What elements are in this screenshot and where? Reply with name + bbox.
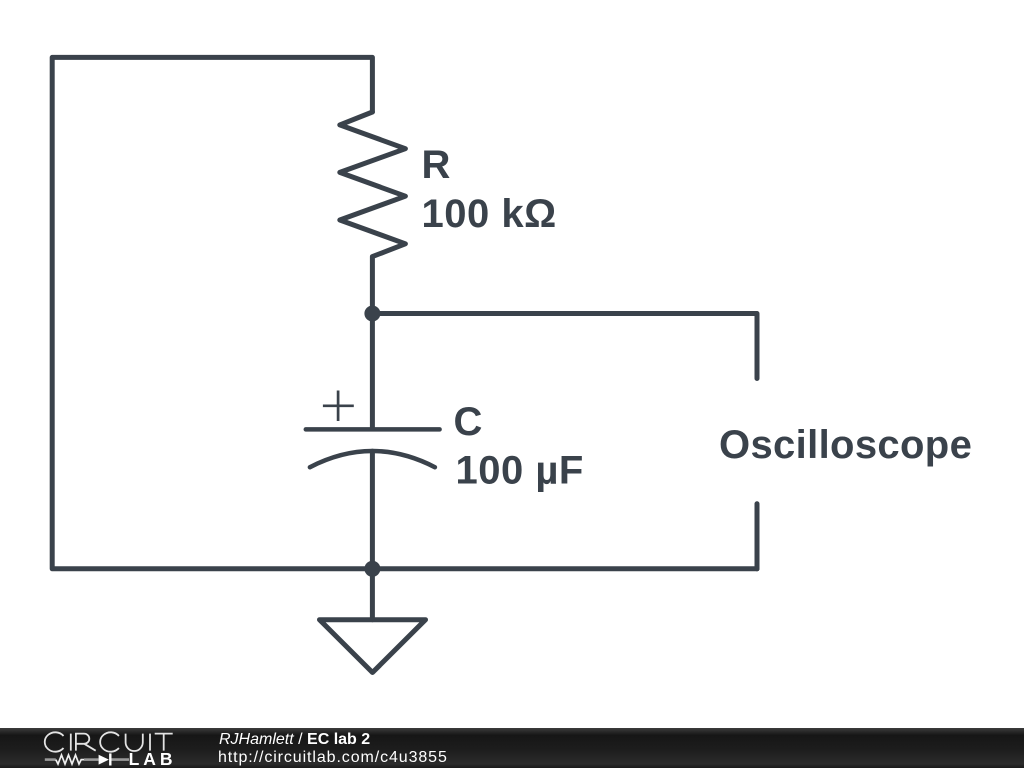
wire node A to oscilloscope top stub [372,314,757,379]
capacitor plus polarity mark [323,391,354,422]
svg-text:LAB: LAB [129,749,177,768]
node A junction dot [364,306,380,322]
wire node B to ground [370,569,375,620]
wire capacitor to node B [370,451,375,569]
ground symbol [320,620,426,673]
wire top/left/bottom loop [52,57,757,568]
svg-text:R: R [422,143,451,187]
logo CIRCUIT wordmark [45,732,173,751]
wire node A down to capacitor [370,314,375,430]
footer url line [218,749,448,767]
footer title line [219,731,370,749]
svg-text:100 kΩ: 100 kΩ [422,192,557,236]
capacitor C top plate [306,427,440,432]
svg-text:Oscilloscope: Oscilloscope [719,423,972,467]
capacitor C bottom arc plate [310,451,435,467]
footer bar [0,728,1024,768]
wire oscilloscope bottom stub [755,504,760,569]
svg-text:100 µF: 100 µF [456,449,584,493]
resistor R zigzag with lead to node A [340,112,406,314]
svg-text:C: C [454,400,483,444]
logo resistor-diode glyph [45,758,129,761]
node B junction dot [364,561,380,577]
